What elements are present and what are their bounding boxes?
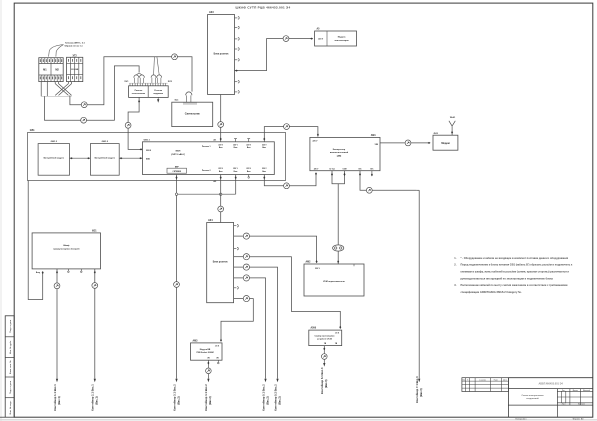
svg-text:руководствоваться инструкцией: руководствоваться инструкцией по эксплуа… (461, 276, 554, 280)
svg-text:Контейнер 4.1 Вкс.2: Контейнер 4.1 Вкс.2 (204, 384, 208, 411)
svg-text:Клемма ЗИП 1, 3.1: Клемма ЗИП 1, 3.1 (65, 42, 85, 44)
svg-text:Разъем 1: Разъем 1 (202, 146, 211, 148)
svg-text:Вых: Вых (234, 171, 238, 173)
svg-text:(Вкс.3): (Вкс.3) (419, 388, 423, 397)
svg-text:Подп. и дата: Подп. и дата (10, 319, 12, 333)
svg-text:Модуль: Модуль (338, 36, 347, 38)
svg-text:Eth: Eth (370, 168, 373, 171)
svg-text:Модуль ВВ: Модуль ВВ (200, 349, 211, 351)
svg-text:Вых: Вых (234, 147, 238, 149)
svg-text:(Вкс.2): (Вкс.2) (208, 396, 212, 405)
svg-text:Вых: Вых (247, 147, 251, 149)
svg-text:АМ3: АМ3 (193, 339, 199, 342)
svg-text:вычислительный: вычислительный (330, 151, 349, 154)
svg-text:Подп. и дата: Подп. и дата (10, 380, 12, 394)
svg-text:3.: 3. (454, 283, 456, 287)
svg-text:Дата: Дата (503, 380, 507, 382)
svg-text:220/24В: 220/24В (71, 68, 79, 71)
svg-text:GB1: GB1 (30, 130, 35, 132)
svg-text:Контейнер 7.1 Вкс.3: Контейнер 7.1 Вкс.3 (415, 376, 419, 403)
svg-text:Вых: Вых (219, 147, 223, 149)
svg-text:Розетка: Розетка (154, 90, 163, 92)
svg-text:Схема электрическая: Схема электрическая (521, 395, 544, 397)
svg-text:АМ2: АМ2 (306, 261, 312, 264)
svg-text:2.: 2. (454, 263, 456, 267)
svg-text:220 В: 220 В (146, 150, 152, 152)
svg-text:Ф21: Ф21 (92, 229, 97, 232)
svg-text:клеммам в шкафу, жилы кабелей: клеммам в шкафу, жилы кабелей в разъёме … (461, 270, 570, 274)
svg-text:Взам. инв. №: Взам. инв. № (9, 360, 12, 374)
svg-text:АМ1: АМ1 (371, 134, 377, 137)
svg-text:Вых: Вых (262, 147, 266, 149)
svg-text:12 V-А: 12 V-А (329, 168, 335, 171)
svg-text:(Вкс.3): (Вкс.3) (324, 379, 328, 388)
svg-text:аккумуляторных батарей: аккумуляторных батарей (53, 248, 80, 251)
svg-text:Изм: Изм (462, 380, 465, 382)
svg-text:КУМ переключатель: КУМ переключатель (323, 281, 345, 283)
svg-text:Формат А3: Формат А3 (573, 417, 585, 420)
svg-text:Контейнер 3.1 Вкс.2: Контейнер 3.1 Вкс.2 (172, 384, 176, 411)
svg-text:ШКАФ СУТП РЦВ 466453.001 Э4: ШКАФ СУТП РЦВ 466453.001 Э4 (236, 5, 291, 9)
svg-text:Инв. № подл.: Инв. № подл. (9, 400, 12, 414)
svg-text:(АВ): (АВ) (337, 155, 342, 158)
svg-text:Обрыв петли 1 и: Обрыв петли 1 и (64, 44, 83, 47)
svg-text:Инв. № дубл.: Инв. № дубл. (9, 340, 12, 354)
svg-text:Сервер переговорных: Сервер переговорных (315, 335, 335, 337)
svg-text:Лист: Лист (562, 404, 566, 406)
svg-text:спецификации ANSI/TIA/EIA-568-: спецификации ANSI/TIA/EIA-568-B.2 Catego… (461, 290, 522, 294)
svg-text:ПЭВ Socket 3000М: ПЭВ Socket 3000М (196, 351, 214, 354)
svg-text:ХТ2: ХТ2 (72, 55, 77, 57)
svg-text:(Вкс.2): (Вкс.2) (265, 396, 269, 405)
svg-text:Модем: Модем (441, 142, 450, 145)
svg-text:СОМ: СОМ (342, 169, 347, 171)
svg-text:СЕТЕВИК: СЕТЕВИК (173, 171, 182, 173)
svg-text:220 V: 220 V (318, 39, 324, 41)
svg-text:* - Оборудование и кабели не в: * - Оборудование и кабели не входящие в … (461, 256, 569, 260)
svg-text:(Вкс.2): (Вкс.2) (277, 396, 281, 405)
svg-text:W.A1: W.A1 (450, 116, 456, 119)
svg-text:Вых: Вых (219, 171, 223, 173)
svg-text:АКБ: АКБ (146, 157, 151, 160)
svg-text:Светильник: Светильник (185, 112, 201, 115)
svg-text:(Вкс.1): (Вкс.1) (95, 396, 99, 405)
svg-text:А34: А34 (208, 219, 213, 222)
svg-text:1.: 1. (454, 256, 456, 260)
svg-text:Подп.: Подп. (494, 380, 499, 382)
svg-text:ИБП: ИБП (176, 151, 181, 153)
svg-text:Блок розеток: Блок розеток (213, 262, 229, 264)
svg-text:А33: А33 (209, 11, 214, 14)
svg-text:Блок розеток: Блок розеток (214, 53, 230, 55)
svg-text:Eth: Eth (359, 168, 362, 171)
svg-text:220 V: 220 V (313, 141, 319, 143)
svg-text:Контейнер 5.2 Вкс.2: Контейнер 5.2 Вкс.2 (273, 384, 277, 411)
svg-text:наружная: наружная (153, 93, 163, 95)
svg-text:Перед подключением к блоку пит: Перед подключением к блоку питания GB1 (… (461, 263, 574, 267)
svg-text:GB1.1: GB1.1 (144, 139, 151, 141)
svg-text:Расположение кабелей по месту: Расположение кабелей по месту снятия зак… (461, 283, 568, 287)
svg-text:Розетка: Розетка (135, 90, 144, 92)
svg-text:устройств СП-50: устройств СП-50 (317, 338, 332, 341)
svg-text:Вых: Вых (262, 171, 266, 173)
svg-text:Л: Л (467, 380, 468, 382)
svg-text:Копировал: Копировал (516, 418, 528, 420)
svg-text:GB1.3: GB1.3 (51, 141, 58, 143)
svg-text:АБВГ.466453.001 Э4: АБВГ.466453.001 Э4 (538, 383, 563, 386)
svg-text:Разъем 2: Разъем 2 (202, 170, 211, 172)
svg-text:Контейнер 5.1 Вкс.2: Контейнер 5.1 Вкс.2 (261, 384, 265, 411)
svg-text:GB1.2: GB1.2 (102, 141, 109, 143)
svg-text:штепсельная: штепсельная (132, 93, 146, 95)
svg-text:Лит.: Лит. (562, 390, 566, 392)
svg-text:Батарейный модуль: Батарейный модуль (44, 157, 65, 160)
svg-text:М2: М2 (55, 69, 59, 72)
svg-text:Батарейный модуль: Батарейный модуль (95, 157, 116, 160)
svg-text:Листов 1: Листов 1 (578, 404, 585, 406)
svg-text:Вых: Вых (247, 171, 251, 173)
svg-text:соединений: соединений (526, 397, 539, 400)
svg-text:А506: А506 (311, 327, 317, 330)
svg-text:вентиляторов: вентиляторов (335, 40, 350, 42)
svg-text:Контейнер 2.1 Вкс.1: Контейнер 2.1 Вкс.1 (91, 384, 95, 411)
svg-text:(Вкс.2): (Вкс.2) (176, 396, 180, 405)
svg-text:Шкаф: Шкаф (63, 244, 69, 247)
svg-text:Коммутатор: Коммутатор (333, 149, 346, 151)
svg-text:(Вкс.1): (Вкс.1) (57, 396, 61, 405)
svg-text:Масса: Масса (573, 390, 578, 392)
svg-text:(СИП 10 кВА У): (СИП 10 кВА У) (171, 153, 185, 156)
svg-text:М1: М1 (43, 69, 47, 72)
svg-text:Контейнер 1.1 Вкс.1: Контейнер 1.1 Вкс.1 (53, 384, 57, 411)
svg-text:220 V: 220 V (315, 268, 320, 270)
svg-text:Контейнер 6.1 Вкс.3: Контейнер 6.1 Вкс.3 (320, 367, 324, 394)
